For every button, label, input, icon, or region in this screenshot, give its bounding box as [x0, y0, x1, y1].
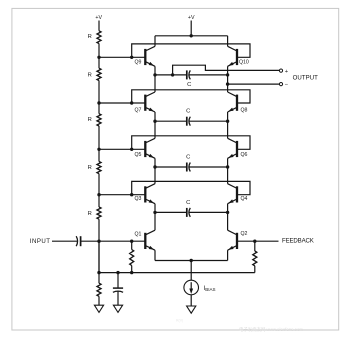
- transistor Q9: [145, 46, 155, 66]
- capacitor C (stage): [186, 117, 188, 126]
- node: [130, 56, 133, 59]
- wire: [190, 261, 192, 281]
- node chain tap: [97, 240, 100, 243]
- svg-text:+V: +V: [95, 15, 102, 21]
- wire base tap Q3: [99, 194, 145, 196]
- resistor R (chain 5): [97, 207, 101, 219]
- svg-text:Q4: Q4: [240, 196, 247, 202]
- wire right column: [227, 66, 229, 92]
- wire left column: [154, 36, 156, 47]
- wire right column: [227, 250, 229, 260]
- wire: [190, 295, 192, 306]
- node: [153, 120, 156, 123]
- wire base tap Q7: [99, 102, 145, 104]
- wire emitter-coupling line: [155, 166, 187, 168]
- svg-text:R: R: [88, 34, 92, 40]
- svg-text:Q6: Q6: [240, 152, 247, 158]
- node: [226, 211, 229, 214]
- terminal output +: [279, 69, 282, 72]
- svg-text:OUTPUT: OUTPUT: [293, 74, 319, 81]
- wire: [98, 126, 100, 162]
- node: [253, 240, 256, 243]
- svg-text:C: C: [187, 82, 191, 88]
- node: [226, 165, 229, 168]
- transistor Q10: [228, 46, 237, 66]
- capacitor C (stage): [186, 70, 188, 79]
- svg-text:Q9: Q9: [134, 60, 141, 66]
- svg-text:电子发烧友网 www.elecfans.com: 电子发烧友网 www.elecfans.com: [239, 326, 303, 333]
- transistor Q3: [145, 184, 155, 204]
- node: [130, 240, 133, 243]
- transistor Q1: [145, 230, 155, 250]
- node: [226, 73, 229, 76]
- node: [153, 211, 156, 214]
- capacitor C (stage): [186, 208, 188, 217]
- node: [130, 271, 133, 274]
- wire base tap Q9: [99, 56, 145, 58]
- svg-text:R: R: [88, 117, 92, 123]
- node: [190, 259, 193, 262]
- wire bottom rail: [99, 272, 255, 274]
- wire top rail: [155, 35, 228, 37]
- svg-text:INPUT: INPUT: [30, 238, 51, 245]
- wire left column: [154, 112, 156, 138]
- ground (Ibias): [187, 306, 196, 313]
- svg-text:+V: +V: [188, 15, 195, 21]
- svg-text:Q1: Q1: [134, 232, 141, 238]
- resistor bias bypass R: [98, 273, 100, 284]
- wire: [98, 174, 100, 207]
- capacitor C (stage): [186, 163, 188, 172]
- svg-text:Q3: Q3: [134, 196, 141, 202]
- resistor R (chain 1): [97, 31, 101, 44]
- wire: [98, 81, 100, 114]
- svg-text:C: C: [186, 154, 190, 160]
- svg-text:R: R: [88, 211, 92, 217]
- node: [153, 165, 156, 168]
- svg-text:R: R: [88, 72, 92, 78]
- resistor feedback: [254, 241, 256, 251]
- wire right column: [227, 36, 229, 47]
- resistor R (chain 3): [97, 114, 101, 126]
- wire: [81, 240, 146, 242]
- wire right column: [227, 112, 229, 138]
- wire left column: [154, 250, 156, 260]
- svg-text:C: C: [186, 200, 190, 206]
- node: [130, 101, 133, 104]
- wire left column: [154, 158, 156, 183]
- node chain tap: [97, 193, 100, 196]
- node chain tap: [97, 148, 100, 151]
- wire base line Q9-Q10: [132, 44, 250, 57]
- wire output + tap: [173, 65, 280, 75]
- wire chain bottom: [98, 241, 100, 272]
- node chain tap: [97, 101, 100, 104]
- svg-text:C: C: [186, 108, 190, 114]
- capacitor input coupling: [76, 236, 77, 246]
- wire common emitter: [155, 260, 228, 262]
- node: [130, 193, 133, 196]
- node: [226, 82, 229, 85]
- transistor Q7: [145, 92, 155, 112]
- node chain tap: [97, 56, 100, 59]
- resistor R (chain 4): [97, 162, 101, 174]
- ground (bypass C): [113, 305, 122, 312]
- wire emitter-coupling line: [155, 74, 187, 76]
- wire: [98, 44, 100, 69]
- transistor Q4: [228, 184, 237, 204]
- capacitor bypass: [117, 273, 119, 289]
- current source IBIAS: [184, 280, 199, 295]
- wire base tap Q5: [99, 148, 145, 150]
- transistor Q6: [228, 138, 237, 158]
- wire: [190, 21, 192, 36]
- svg-text:R: R: [88, 165, 92, 171]
- node: [97, 271, 100, 274]
- transistor Q8: [228, 92, 237, 112]
- node: [190, 34, 193, 37]
- node: [116, 271, 119, 274]
- wire base line Q7-Q8: [132, 90, 250, 103]
- node: [171, 73, 174, 76]
- wire output - tap: [228, 83, 280, 85]
- wire right column: [227, 204, 229, 231]
- transistor Q5: [145, 138, 155, 158]
- svg-text:+: +: [285, 69, 289, 75]
- wire feedback: [237, 240, 279, 242]
- resistor R (chain 2): [97, 68, 101, 80]
- resistor Q1 base bias: [131, 241, 133, 249]
- wire emitter-coupling line: [155, 120, 187, 122]
- svg-text:Q8: Q8: [240, 107, 247, 113]
- transistor Q2: [228, 230, 237, 250]
- wire base line Q5-Q6: [132, 136, 250, 150]
- wire: [98, 219, 100, 272]
- svg-text:FEEDBACK: FEEDBACK: [282, 237, 314, 244]
- svg-text:Q2: Q2: [240, 231, 247, 237]
- svg-text:IBIAS: IBIAS: [204, 286, 216, 292]
- svg-text:Q5: Q5: [134, 152, 141, 158]
- svg-text:Q7: Q7: [134, 107, 141, 113]
- wire left column: [154, 66, 156, 92]
- wire: [98, 21, 100, 31]
- svg-text:−: −: [285, 82, 289, 88]
- wire emitter-coupling line: [155, 211, 187, 213]
- svg-text:Q10: Q10: [239, 60, 249, 66]
- node: [153, 73, 156, 76]
- terminal output -: [279, 83, 282, 86]
- wire input: [52, 240, 78, 242]
- svg-text:R(V): R(V): [176, 319, 183, 323]
- wire base line Q3-Q4: [132, 181, 250, 194]
- ground (left R): [94, 305, 103, 312]
- wire right column: [227, 158, 229, 183]
- wire left column: [154, 204, 156, 231]
- node: [226, 120, 229, 123]
- node: [130, 148, 133, 151]
